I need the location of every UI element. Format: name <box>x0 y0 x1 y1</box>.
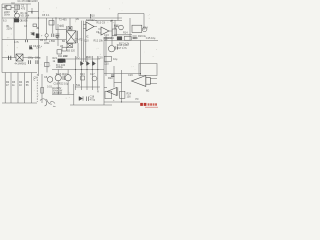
wire vertical x112 upper <box>111 20 113 45</box>
transistor V4 circle <box>119 25 124 30</box>
transistor V5 circle <box>142 27 147 32</box>
wire vertical x144 <box>143 14 145 31</box>
watermark red url line <box>145 107 158 108</box>
svg-text:R12 10k: R12 10k <box>94 40 104 43</box>
diode row VD5-VD7 <box>81 62 96 66</box>
wire speaker leads <box>150 79 157 84</box>
transistor V2 circle <box>47 77 53 83</box>
wire vertical x47 low <box>46 56 48 73</box>
diode VD4 small <box>29 47 32 50</box>
svg-text:TA7642: TA7642 <box>86 19 95 22</box>
wire vertical x78 link <box>77 43 79 56</box>
box right edge <box>105 91 112 98</box>
svg-text:100μ: 100μ <box>28 56 34 59</box>
bridge rectifier box <box>16 54 23 61</box>
capacitor C5 bars <box>9 56 11 60</box>
svg-text:8Ω: 8Ω <box>146 89 149 92</box>
wire vertical x75.5 <box>75 56 77 90</box>
wire rail y72.5 <box>2 72 37 74</box>
wire rail y13.5 right <box>118 13 144 15</box>
speaker BL enclosure <box>139 64 157 76</box>
svg-text:R16: R16 <box>108 37 113 40</box>
wire vertical x56 <box>55 18 57 30</box>
wire rail y103 bottom-left <box>2 102 37 104</box>
resistor box R-bank stub <box>41 88 44 94</box>
wire vertical x70 link <box>69 18 71 26</box>
diode VD9 <box>56 36 59 39</box>
svg-text:R23: R23 <box>80 73 85 76</box>
wire y82.3 branch <box>114 81 122 83</box>
svg-text:R17 4.7k: R17 4.7k <box>119 43 130 46</box>
wire vertical x85.6 <box>85 21 87 62</box>
diode VD3 <box>31 33 35 36</box>
wire op-amp U2 leads <box>98 29 112 33</box>
svg-text:R20: R20 <box>108 77 113 80</box>
resistor R9 tick <box>90 14 92 18</box>
wire long vertical x38.5 <box>38 2 40 76</box>
capacitor C19 <box>87 97 89 102</box>
wire rail y69.5 center <box>52 69 104 71</box>
transistor V7 circle <box>55 75 61 81</box>
capacitor C20 box <box>120 91 125 98</box>
wire vertical x130 <box>129 18 131 40</box>
wire vertical x32 <box>31 8 33 14</box>
svg-text:R14: R14 <box>123 32 128 35</box>
wire rail y73.6 right <box>104 73 140 75</box>
transistor V6 circle <box>108 46 114 52</box>
wire vertical x92.3 <box>91 56 93 90</box>
resistor R12 hatch <box>103 38 107 40</box>
IC box N1 <box>132 25 142 32</box>
capacitor C8 <box>52 34 54 37</box>
resistor box center-right <box>81 76 85 80</box>
wire vertical x14.5 lower <box>14 40 16 58</box>
svg-text:C19: C19 <box>128 74 133 77</box>
svg-text:中周: 中周 <box>59 23 65 27</box>
wire main rail y18 <box>2 17 122 19</box>
wire resistor-bank verticals <box>5 73 31 104</box>
filter FL1 hatched box <box>15 5 20 10</box>
svg-text:220V: 220V <box>7 28 13 31</box>
svg-text:R C 100: R C 100 <box>56 64 66 67</box>
svg-text:220k: 220k <box>44 42 50 45</box>
wire vertical x81.4 <box>80 21 82 90</box>
resistor boxes mid-right <box>132 36 136 39</box>
svg-text:C10: C10 <box>98 56 103 59</box>
svg-text:R10: R10 <box>90 14 95 17</box>
svg-text:VD 1N4: VD 1N4 <box>21 15 30 18</box>
wire op-amp U1 leads <box>83 25 97 29</box>
capacitor C7 <box>36 60 38 64</box>
svg-text:GB 8898: GB 8898 <box>52 92 62 95</box>
junction nodes on main rail <box>13 17 141 102</box>
svg-text:470μ: 470μ <box>90 98 96 101</box>
svg-text:473: 473 <box>21 7 26 10</box>
wire rail y20.6 parallel <box>86 20 122 22</box>
wire rail y40.4 right <box>104 39 158 41</box>
wire y57.5 left <box>2 57 40 59</box>
transistor V9 small circle <box>92 76 97 81</box>
wire rail y102 right <box>104 101 140 103</box>
svg-text:10μ: 10μ <box>113 58 118 61</box>
transformer T1 crossed box <box>67 31 78 43</box>
fuse F1 <box>2 6 15 10</box>
wire mid rail y39.5 <box>2 39 66 41</box>
wire rail y59 <box>66 58 100 60</box>
wire vertical x58 <box>57 24 59 46</box>
dark box 320 <box>58 59 63 63</box>
wire vertical x115 <box>114 20 116 36</box>
svg-text:C17: C17 <box>90 73 95 76</box>
wire vertical x114 <box>113 66 115 88</box>
svg-text:4×1N4001: 4×1N4001 <box>15 62 27 65</box>
wire left edge vertical <box>1 4 3 73</box>
watermark red logo blocks <box>140 103 157 106</box>
capacitor C4 electrolytic <box>36 34 39 39</box>
op-amp U1 triangle <box>86 22 94 31</box>
svg-text:C14: C14 <box>143 27 148 30</box>
wire vertical x42 <box>41 74 43 103</box>
svg-text:R13 C9: R13 C9 <box>97 22 106 25</box>
svg-text:C16 R22 10μ: C16 R22 10μ <box>54 82 69 85</box>
wire y29.5 link <box>56 29 67 31</box>
resistor R8 box <box>45 63 50 67</box>
box dark right row <box>117 36 122 40</box>
svg-text:100: 100 <box>127 95 132 98</box>
wire vertical x118 link <box>117 14 119 21</box>
wire transistor V7 leads <box>57 70 59 95</box>
box B3 <box>57 50 62 54</box>
capacitor C17 between <box>63 76 65 81</box>
capacitor C15 box <box>104 56 111 61</box>
svg-text:C7 472: C7 472 <box>75 39 84 42</box>
wire segment y11.5 <box>28 11 39 13</box>
svg-text:R17 4.7k: R17 4.7k <box>117 47 128 50</box>
wire vertical x104 long <box>103 40 105 105</box>
box right row 2 <box>124 36 131 40</box>
wire rail y94.5 <box>52 94 74 96</box>
wire vertical x140.4 <box>139 40 141 75</box>
capacitor C3 <box>26 40 28 43</box>
box B4 dark <box>60 59 66 63</box>
wire top-left rail <box>2 3 31 5</box>
wire vertical x83 <box>82 21 84 62</box>
wire y87.5 stub <box>104 87 107 89</box>
svg-text:9013 9013: 9013 9013 <box>56 73 68 76</box>
wire rail y105 <box>70 104 112 106</box>
wire rail y34.8 right <box>114 34 132 36</box>
diode VD8 <box>79 96 83 100</box>
scan speckle noise <box>5 3 157 99</box>
box B2 <box>62 47 67 51</box>
op-amp U2 triangle <box>101 27 109 35</box>
diode VD1 triangle <box>14 11 18 14</box>
wire vertical x97.8 <box>97 56 99 90</box>
wire transistor V8 leads <box>67 70 69 95</box>
oscillator box Y1 <box>49 21 54 26</box>
speaker BL cone <box>132 76 151 87</box>
svg-text:AC220V: AC220V <box>29 0 39 3</box>
svg-text:C15 10μ: C15 10μ <box>146 37 156 40</box>
svg-text:6.3: 6.3 <box>3 20 7 23</box>
text labels small <box>3 0 156 102</box>
box C9 <box>112 29 116 36</box>
switch K small box <box>33 24 37 27</box>
svg-text:T2 465: T2 465 <box>59 19 67 22</box>
svg-text:FU: FU <box>12 2 16 5</box>
capacitor C6 <box>29 60 31 64</box>
svg-text:R: R <box>31 11 33 14</box>
diode VD2 arrow <box>36 27 39 30</box>
svg-text:50Hz: 50Hz <box>4 14 11 17</box>
transistor V1 circle <box>15 13 20 18</box>
signature mark <box>40 99 56 107</box>
svg-text:B3 320: B3 320 <box>67 49 76 52</box>
svg-text:VD: VD <box>76 56 80 59</box>
svg-text:R: R <box>97 90 99 93</box>
svg-text:L 560: L 560 <box>49 40 56 43</box>
capacitor C19 bars <box>111 75 114 77</box>
svg-text:4.7k: 4.7k <box>14 41 19 44</box>
svg-text:C4+: C4+ <box>36 46 41 49</box>
svg-text:1A: 1A <box>4 8 7 11</box>
wire vertical x52.8 <box>52 18 54 34</box>
svg-text:1N40: 1N40 <box>86 56 93 59</box>
wire vertical x66 transformer left <box>66 26 68 31</box>
wire vertical x26.7 <box>26 18 28 40</box>
capacitor C21 bars <box>116 46 118 49</box>
connector CZ box with dot <box>68 26 72 30</box>
svg-text:YD: YD <box>135 98 139 101</box>
transformer B1 core <box>14 18 19 22</box>
earphone jack triangle <box>107 87 118 95</box>
wire dashed vertical x37.2 <box>36 74 38 102</box>
wire vertical x87 <box>86 56 88 90</box>
wire vertical x73.8 <box>73 84 75 105</box>
svg-text:LB: LB <box>60 45 63 48</box>
svg-text:100μ: 100μ <box>35 56 41 59</box>
svg-text:IC: IC <box>86 36 89 39</box>
transformer T2 small crossed box <box>67 44 73 48</box>
wire vertical x27 <box>26 4 28 18</box>
wire vertical x121.5 <box>121 70 123 102</box>
svg-text:C: C <box>110 20 112 23</box>
transistor V8 circle <box>65 75 71 81</box>
svg-text:C12: C12 <box>63 55 68 58</box>
svg-text:C15: C15 <box>104 63 109 66</box>
wire vertical x46.6 <box>46 18 48 40</box>
inductor L1 marks <box>56 34 60 37</box>
wire vertical x14 transformer <box>13 18 15 40</box>
svg-text:C5 0.1: C5 0.1 <box>42 14 50 17</box>
transistor V3 circle <box>45 34 48 37</box>
svg-text:C5 800: C5 800 <box>20 20 29 23</box>
svg-text:R19 1k: R19 1k <box>138 35 147 38</box>
svg-text:0.01: 0.01 <box>47 85 52 88</box>
svg-text:C10: C10 <box>84 40 89 43</box>
wire vertical x106 <box>105 36 107 76</box>
wire rail y87 <box>75 86 100 88</box>
